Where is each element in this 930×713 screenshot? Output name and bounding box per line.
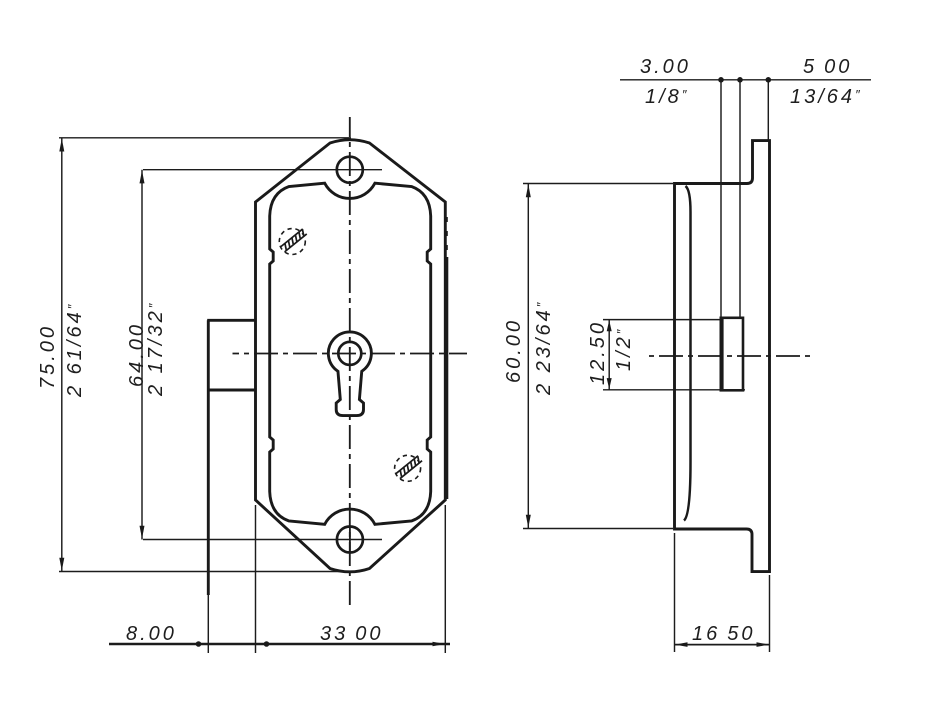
extension 60.00 top bbox=[523, 183, 673, 185]
keyhole boss bbox=[721, 318, 743, 391]
arrow 16.50 right bbox=[757, 642, 770, 647]
arrow 75.00 bottom bbox=[59, 558, 64, 571]
dot 3.00 left bbox=[718, 77, 724, 83]
top dimension line 3.00 / 5.00 bbox=[620, 79, 871, 81]
svg-text:60.00: 60.00 bbox=[503, 318, 525, 383]
arrow 64.00 top bbox=[140, 170, 145, 183]
bottom dimension line 8.00 / 33.00 bbox=[109, 643, 450, 645]
svg-text:3.00: 3.00 bbox=[640, 56, 691, 78]
extension boss right bbox=[739, 80, 741, 318]
svg-text:33 00: 33 00 bbox=[320, 623, 384, 645]
extension 16.50 right bbox=[769, 575, 771, 652]
bottom screw hole center line bbox=[143, 539, 382, 541]
svg-text:12.50: 12.50 bbox=[587, 320, 609, 385]
arrow dot 8.00 right bbox=[264, 641, 270, 647]
svg-text:75.00: 75.00 bbox=[37, 324, 59, 389]
dimension line 64.00 bbox=[141, 170, 143, 540]
outer outline right edge doubled (folded lip) bbox=[446, 257, 448, 499]
arrow 33.00 right bbox=[433, 642, 446, 647]
keyhole inner circle bbox=[338, 342, 361, 365]
bottom screw hole bbox=[337, 527, 363, 553]
extension 16.50 left bbox=[674, 533, 676, 652]
arrow 16.50 left bbox=[675, 642, 688, 647]
arrow 64.00 bottom bbox=[140, 526, 145, 539]
extension boss left bbox=[720, 80, 722, 318]
dimension 75.00 extension bottom bbox=[59, 571, 351, 573]
screw upper-left bbox=[279, 229, 306, 255]
svg-text:2 23/64″: 2 23/64″ bbox=[533, 300, 555, 396]
bent plate curve inside case bbox=[684, 186, 691, 521]
svg-text:2 17/32″: 2 17/32″ bbox=[145, 301, 167, 397]
center dash through bottom screw bbox=[349, 526, 351, 553]
keyhole outline bbox=[328, 332, 371, 416]
outer plate outline bbox=[256, 140, 446, 572]
extension plate-left for 33.00 bbox=[255, 505, 257, 653]
lock case behind plate (left sliver) bbox=[207, 320, 255, 595]
top screw hole bbox=[337, 157, 363, 183]
extension 12.50 top bbox=[603, 319, 721, 321]
boss left edge thick bbox=[720, 318, 723, 391]
inner plate outline with notches bbox=[270, 183, 431, 524]
case and faceplate outline bbox=[675, 141, 770, 572]
extension 12.50 bottom bbox=[603, 389, 745, 391]
dot 5.00 right bbox=[766, 77, 772, 83]
svg-text:5 00: 5 00 bbox=[803, 56, 852, 78]
svg-text:8.00: 8.00 bbox=[126, 623, 177, 645]
dimension line 12.50 bbox=[608, 320, 610, 390]
arrow 12.50 bottom bbox=[607, 378, 612, 389]
extension faceplate right bbox=[767, 80, 769, 141]
arrow 12.50 top bbox=[607, 320, 612, 331]
dimension line 75.00 bbox=[61, 138, 63, 572]
svg-text:16 50: 16 50 bbox=[692, 623, 756, 645]
extension case-left for 8.00 bbox=[207, 595, 209, 653]
arrow 60.00 top bbox=[526, 184, 531, 197]
dimension line 60.00 bbox=[527, 184, 529, 529]
dimension line 16.50 bbox=[675, 644, 770, 646]
extension 60.00 bottom bbox=[523, 528, 673, 530]
top screw hole center line bbox=[143, 169, 382, 171]
arrow dot 8.00 left bbox=[196, 641, 202, 647]
centerline vertical (left view) bbox=[349, 117, 351, 608]
svg-text:13/64″: 13/64″ bbox=[790, 86, 863, 108]
arrow 60.00 bottom bbox=[526, 515, 531, 528]
dimension 75.00 extension top bbox=[59, 137, 351, 139]
svg-text:2 61/64″: 2 61/64″ bbox=[64, 302, 86, 398]
centerline horizontal (left view) bbox=[233, 353, 468, 355]
lip dashes upper right bbox=[446, 217, 448, 250]
extension plate-right for 33.00 bbox=[444, 505, 446, 653]
arrow 75.00 top bbox=[59, 139, 64, 152]
dot 3.00 right bbox=[737, 77, 743, 83]
centerline horizontal (right view) bbox=[649, 355, 812, 357]
screw lower-right bbox=[395, 455, 422, 481]
